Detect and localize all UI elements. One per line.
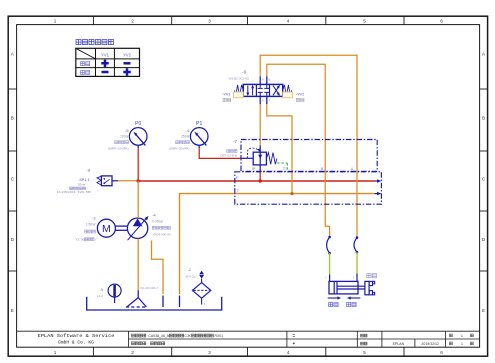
- svg-text:4: 4: [287, 350, 290, 355]
- svg-text:-6: -6: [186, 128, 189, 133]
- svg-text:0-35bar: 0-35bar: [152, 220, 164, 224]
- svg-text:): ): [95, 238, 96, 242]
- project description text: [132, 334, 224, 338]
- svg-text:-6: -6: [125, 128, 128, 133]
- title block right cells: [361, 334, 474, 346]
- wire gauge P0 to P rail: [137, 145, 139, 181]
- svg-text:2: 2: [131, 18, 134, 23]
- valve centre position blocked ports: [258, 84, 270, 96]
- svg-text:P: P: [236, 175, 239, 180]
- svg-text:1: 1: [54, 350, 57, 355]
- wire P rail: [138, 180, 374, 182]
- svg-text:(5MPA-20MPA): (5MPA-20MPA): [169, 146, 190, 150]
- variable displacement pump (-4): [127, 216, 148, 240]
- title block: [17, 331, 480, 347]
- svg-text:EPLAN Software & Service: EPLAN Software & Service: [38, 333, 115, 339]
- svg-text:DBT-02-B-B: DBT-02-B-B: [220, 153, 237, 157]
- wire pressure switch to junction: [118, 180, 138, 182]
- level gauge (-5): [108, 284, 121, 303]
- cylinder port stubs: [325, 274, 357, 282]
- svg-text:(5MPA-10MPA): (5MPA-10MPA): [108, 146, 129, 150]
- svg-text:-YV1: -YV1: [222, 91, 231, 96]
- svg-text:E: E: [482, 308, 485, 313]
- svg-text:A: A: [351, 166, 354, 171]
- wire valve P port to relief valve: [259, 104, 261, 145]
- pressure gauge P0 (-6): [129, 121, 147, 145]
- valve -9 labels: [229, 70, 249, 81]
- svg-text:2019/12/12: 2019/12/12: [421, 342, 439, 346]
- svg-text:XU-40×100-J: XU-40×100-J: [140, 286, 158, 290]
- valve left spring: [234, 85, 243, 96]
- wire pump suction: [137, 239, 139, 291]
- wire gauge P1 to relief valve pilot port: [199, 145, 241, 158]
- wire relief valve to P rail: [259, 172, 261, 182]
- svg-text:-2: -2: [188, 268, 191, 272]
- wire hose to cylinder right port: [356, 252, 358, 273]
- wire hose to cylinder left port: [329, 253, 331, 274]
- svg-text:: CAK36_46_50: : CAK36_46_50: [147, 334, 171, 338]
- P rail end arrow at port A-side: [375, 179, 382, 183]
- breather labels: [186, 268, 197, 278]
- T return pipe end into tank: [179, 296, 181, 308]
- svg-text:B: B: [268, 77, 270, 81]
- manifold block lower boundary: [235, 172, 382, 204]
- gauge P1 labels: [169, 128, 190, 150]
- svg-text:1.5KW: 1.5KW: [86, 223, 97, 227]
- svg-text:RX01: RX01: [215, 334, 224, 338]
- relief valve (-7): [241, 145, 277, 171]
- svg-text:M: M: [102, 223, 111, 235]
- level gauge labels: [97, 288, 103, 298]
- svg-text:E: E: [11, 308, 14, 313]
- svg-text:EPLAN: EPLAN: [393, 342, 405, 346]
- svg-text:B: B: [11, 116, 14, 121]
- T rail end arrow: [375, 192, 382, 196]
- tank: [87, 297, 222, 310]
- svg-text:P: P: [252, 166, 255, 171]
- svg-text:DS-B2-3C2-B2: DS-B2-3C2-B2: [229, 76, 249, 80]
- svg-text:20bar: 20bar: [120, 135, 129, 139]
- svg-text:-3: -3: [92, 215, 95, 220]
- svg-text:4: 4: [287, 18, 290, 23]
- svg-text:6: 6: [440, 350, 443, 355]
- svg-text:EF4-25J: EF4-25J: [186, 274, 197, 278]
- svg-text:-YV2: -YV2: [296, 91, 305, 96]
- node junction T riser on T rail: [290, 192, 293, 195]
- svg-text:5: 5: [363, 18, 366, 23]
- hydraulic cylinder: [329, 281, 365, 294]
- solenoid YV2 labels: [296, 91, 305, 101]
- valve right position crossed arrows: [273, 85, 280, 96]
- solenoid action table title: [76, 40, 113, 45]
- svg-text:P: P: [262, 99, 264, 103]
- pressure switch labels: [57, 168, 91, 195]
- svg-text:2: 2: [131, 350, 134, 355]
- chuck: [365, 281, 375, 294]
- node junction relief valve: [259, 179, 262, 182]
- svg-text:25bar: 25bar: [181, 135, 190, 139]
- svg-text:-7: -7: [233, 139, 237, 144]
- svg-text:-9: -9: [242, 70, 246, 75]
- solenoid action table: [76, 48, 140, 76]
- wire T rail: [180, 194, 375, 294]
- solenoid YV1 labels: [222, 91, 231, 101]
- chuck label: [367, 274, 377, 278]
- svg-text:1: 1: [54, 18, 57, 23]
- pump labels: [152, 213, 171, 237]
- pressure gauge P1 (-6): [190, 121, 208, 145]
- wire valve B port to cylinder piston side: [267, 64, 330, 236]
- svg-text:YPD4-30F-A2: YPD4-30F-A2: [152, 233, 171, 237]
- relief valve drain pilot line (green dashed): [277, 163, 288, 171]
- svg-text:-8: -8: [87, 168, 90, 173]
- manifold block upper boundary: [241, 140, 377, 172]
- coupling motor-pump: [116, 226, 128, 230]
- valve left position parallel arrows: [246, 85, 254, 96]
- svg-text::: :: [147, 342, 148, 346]
- svg-text:YV1: YV1: [101, 52, 110, 57]
- valve port labels: [260, 76, 270, 104]
- svg-text:B: B: [482, 116, 485, 121]
- release direction arrow: [347, 296, 360, 299]
- suction strainer: [126, 290, 148, 307]
- solenoid YV2 coil box: [283, 92, 293, 98]
- solenoid YV1 coil box: [234, 92, 244, 98]
- svg-text:CJK: CJK: [185, 334, 192, 338]
- pressure switch -SP1.1 (-8): [97, 176, 118, 186]
- relief valve labels: [220, 139, 237, 158]
- motor M (-3): [97, 219, 115, 237]
- motor labels: [76, 215, 97, 241]
- svg-text:5: 5: [363, 350, 366, 355]
- manifold port labels: [236, 166, 354, 193]
- svg-text:-5: -5: [100, 288, 103, 292]
- svg-text:YV2: YV2: [123, 52, 132, 57]
- release label: [347, 302, 357, 306]
- structure markers: [293, 333, 296, 346]
- wire valve T port to T rail: [267, 104, 292, 193]
- directional valve 4/3 (-9) body: [243, 84, 282, 96]
- hose to cylinder piston side: [327, 236, 331, 255]
- svg-text:1: 1: [461, 334, 463, 338]
- svg-text:P1: P1: [196, 121, 202, 127]
- clamp label: [329, 302, 339, 306]
- air breather filter (-2): [192, 271, 210, 306]
- wire pump outlet riser: [137, 181, 139, 218]
- svg-text:T: T: [268, 99, 270, 103]
- svg-text:P0: P0: [135, 121, 141, 127]
- wire valve A port to cylinder rod side: [260, 55, 357, 237]
- hose to cylinder rod side: [354, 236, 358, 253]
- clamp direction arrow: [328, 296, 341, 299]
- svg-text:6: 6: [440, 18, 443, 23]
- svg-text:3: 3: [208, 350, 211, 355]
- node junction pump/gauge: [137, 179, 140, 182]
- wire pump case drain: [152, 241, 164, 295]
- svg-text:3: 3: [208, 18, 211, 23]
- svg-text:30bar: 30bar: [78, 182, 86, 186]
- sheet description text: [132, 342, 165, 346]
- svg-text:GmbH & Co. KG: GmbH & Co. KG: [58, 340, 94, 346]
- gauge P0 labels: [108, 128, 129, 150]
- drain pipe end into tank: [162, 296, 164, 308]
- svg-text:A: A: [262, 77, 264, 81]
- svg-text:+: +: [293, 341, 296, 346]
- svg-text:=: =: [293, 333, 296, 338]
- svg-text:1: 1: [461, 342, 463, 346]
- valve right spring: [283, 85, 292, 96]
- svg-text:L3-2: L3-2: [97, 294, 103, 298]
- svg-text:LLF80421 T20-5B: LLF80421 T20-5B: [57, 190, 91, 194]
- svg-text:B: B: [321, 166, 324, 171]
